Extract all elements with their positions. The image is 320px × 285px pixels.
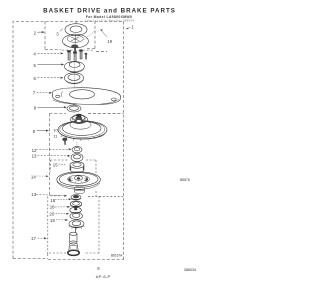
pulley item14: [57, 172, 101, 194]
svg-text:1: 1: [131, 24, 134, 29]
label 4 + arrow: [33, 52, 63, 57]
svg-text:B6167A: B6167A: [111, 253, 123, 257]
label 1: [126, 24, 135, 29]
label 13 lower + arrow: [31, 192, 67, 197]
dashed box item9 basket drive: [50, 113, 124, 196]
label 8 + arrow: [34, 106, 67, 111]
label 19 stack + arrow: [50, 218, 68, 223]
label 2 + arrow: [34, 31, 45, 36]
svg-text:9: 9: [97, 266, 100, 271]
spin tube 17: [68, 228, 80, 256]
label 7 + arrow: [33, 91, 52, 96]
svg-text:18: 18: [50, 205, 55, 210]
svg-text:11: 11: [53, 134, 57, 139]
svg-text:19: 19: [50, 218, 55, 223]
left margin labels: [31, 29, 72, 241]
bolt cluster item4: [67, 49, 87, 61]
svg-text:BASKET DRIVE and BRAKE PARTS: BASKET DRIVE and BRAKE PARTS: [43, 8, 176, 15]
svg-text:13: 13: [32, 154, 37, 159]
dashed box item19 top seal kit: [45, 22, 107, 52]
collar: [70, 162, 84, 169]
svg-text:8: 8: [34, 106, 37, 111]
svg-text:9: 9: [33, 129, 36, 134]
svg-text:7: 7: [33, 91, 36, 96]
svg-text:B5876: B5876: [180, 178, 190, 182]
dashed box item1 outer: [13, 22, 124, 261]
label 18 + arrow: [50, 205, 70, 210]
svg-text:388034: 388034: [184, 268, 196, 272]
ring 8: [67, 105, 81, 112]
label 16 + arrow: [50, 198, 71, 203]
label 5 + arrow: [34, 63, 65, 68]
svg-text:14: 14: [31, 174, 36, 179]
label 20 + arrow: [49, 212, 69, 217]
svg-text:15: 15: [53, 163, 58, 168]
svg-text:6: 6: [34, 76, 37, 81]
dashed box item15: [51, 160, 124, 196]
svg-text:12: 12: [32, 148, 37, 153]
svg-text:13: 13: [31, 192, 36, 197]
label 6 + arrow: [34, 76, 64, 81]
cap item3: [62, 34, 88, 53]
bearing hub assy 10-13: [58, 114, 107, 141]
ring 5: [64, 61, 84, 71]
bolt 10/11: [53, 128, 67, 145]
label 14 + arrow: [31, 174, 49, 179]
svg-text:2: 2: [34, 31, 37, 36]
centerline top: [73, 57, 75, 88]
ring 3 seal: [65, 21, 87, 36]
label 17 + arrow: [31, 236, 47, 241]
box4 dashed line behind bolts: [62, 49, 95, 51]
svg-text:3: 3: [56, 32, 59, 37]
label 19 top: [100, 29, 113, 44]
ring 6: [64, 73, 83, 84]
dashed box brake package: [48, 196, 99, 253]
washer stack 16,18,20,19: [69, 195, 85, 230]
label 9 + arrow: [33, 129, 49, 134]
leader to 19 dotted: [85, 30, 96, 39]
label 13 + arrow: [32, 154, 71, 159]
svg-text:20: 20: [49, 212, 54, 217]
label 12 + arrow: [32, 148, 72, 153]
plate item7: [52, 88, 120, 105]
svg-text:16: 16: [50, 198, 55, 203]
svg-text:AP-6-P: AP-6-P: [96, 274, 111, 279]
label 3 + leader: [56, 29, 63, 37]
svg-text:19: 19: [107, 39, 112, 44]
spokes: [69, 175, 88, 183]
spacer stack 12,13, collar: [70, 142, 84, 172]
svg-text:5: 5: [34, 63, 37, 68]
svg-text:4: 4: [33, 52, 36, 57]
svg-text:17: 17: [31, 236, 36, 241]
